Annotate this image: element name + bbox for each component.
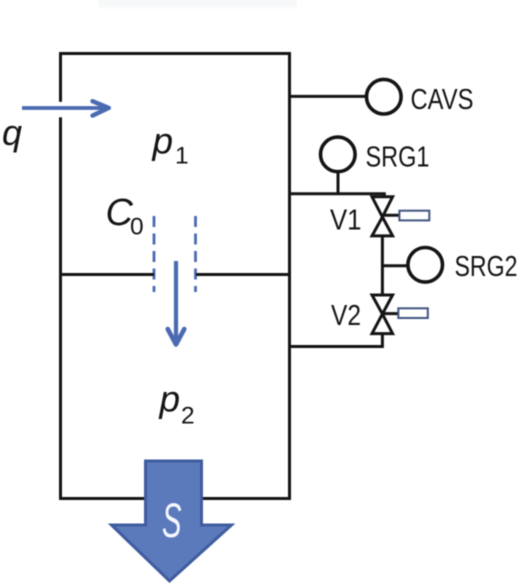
gauge CAVS circle (367, 79, 402, 114)
svg-text:p: p (152, 121, 174, 162)
svg-text:V2: V2 (331, 300, 361, 332)
chamber divider left segment (61, 273, 155, 276)
gauge SRG1 circle (321, 137, 356, 172)
wire V1 to V2 (381, 236, 384, 296)
gap in chamber wall for inlet (57, 102, 65, 118)
orifice dashed line left (153, 216, 156, 292)
svg-text:V1: V1 (330, 204, 362, 236)
svg-text:p: p (159, 379, 181, 420)
svg-text:SRG2: SRG2 (455, 251, 518, 283)
V1 actuator box (399, 211, 429, 221)
orifice dashed line right (194, 216, 197, 292)
svg-text:S: S (162, 495, 182, 548)
wire chamber to valve V1 (291, 194, 384, 197)
svg-text:q: q (2, 112, 22, 153)
svg-text:1: 1 (175, 143, 189, 170)
svg-text:CAVS: CAVS (411, 84, 474, 116)
inlet flow arrow q (22, 101, 109, 115)
wire to SRG2 gauge (382, 264, 408, 267)
pump block arrow S (112, 461, 232, 581)
svg-text:SRG1: SRG1 (366, 141, 430, 173)
wire V2 to chamber (291, 334, 382, 347)
V1 actuator link (383, 214, 400, 217)
chamber divider right segment (196, 273, 289, 276)
svg-text:2: 2 (181, 402, 195, 429)
svg-text:0: 0 (130, 214, 144, 241)
valve V2 (372, 295, 393, 334)
SRG1 stem wire (337, 172, 340, 194)
valve V1 (372, 197, 393, 236)
V2 actuator box (398, 308, 428, 318)
V2 actuator link (383, 312, 398, 315)
flow arrow through orifice (168, 261, 185, 345)
wire chamber to CAVS gauge (291, 95, 366, 98)
chamber outline (61, 54, 290, 499)
gauge SRG2 circle (408, 247, 443, 282)
